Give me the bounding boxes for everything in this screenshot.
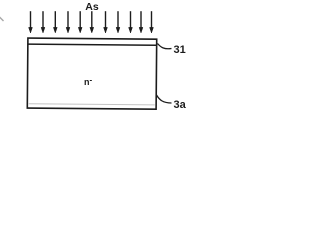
svg-text:3a: 3a <box>174 99 187 111</box>
implant arrow 11 <box>150 11 154 33</box>
implant arrow 9 <box>129 11 133 33</box>
implant arrow 8 <box>116 11 120 33</box>
implant arrow 2 <box>41 11 45 33</box>
implant arrow 6 <box>90 11 94 33</box>
implant arrow 3 <box>53 11 57 33</box>
leader line to 3a <box>157 95 172 103</box>
implant arrow 4 <box>66 11 70 33</box>
implant arrow 5 <box>78 11 82 33</box>
substrate 3a box <box>27 38 156 109</box>
implant arrow 10 <box>139 11 143 33</box>
svg-text:31: 31 <box>174 44 186 56</box>
scan artifact top-left <box>0 17 4 21</box>
leader line to 31 <box>158 44 172 49</box>
scan ghost line above bottom edge <box>29 104 155 105</box>
layer 31 bottom line <box>28 44 157 45</box>
implant arrow 7 <box>104 11 108 33</box>
implant arrow 1 <box>29 11 33 33</box>
